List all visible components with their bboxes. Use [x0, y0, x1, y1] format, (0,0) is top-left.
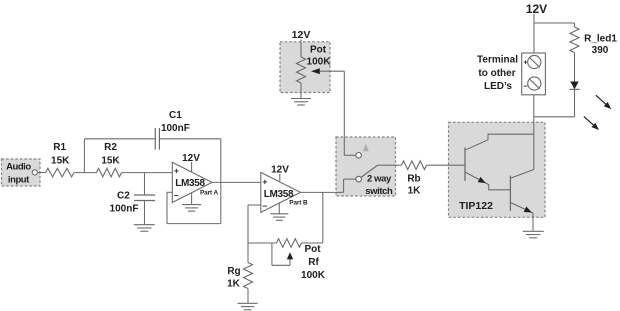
- svg-text:+: +: [523, 57, 528, 66]
- svg-text:+: +: [262, 176, 267, 186]
- svg-text:−: −: [262, 201, 267, 211]
- svg-text:R1: R1: [53, 142, 66, 153]
- svg-text:TIP122: TIP122: [459, 200, 493, 212]
- svg-text:R2: R2: [104, 142, 117, 153]
- svg-text:1K: 1K: [408, 186, 422, 197]
- svg-text:Pot: Pot: [310, 44, 327, 55]
- svg-text:15K: 15K: [101, 155, 120, 166]
- svg-text:12V: 12V: [526, 2, 547, 16]
- svg-text:Audio: Audio: [6, 161, 31, 172]
- svg-text:+: +: [174, 165, 179, 175]
- svg-text:100K: 100K: [301, 270, 326, 281]
- svg-text:Part B: Part B: [289, 200, 308, 207]
- svg-text:C1: C1: [169, 110, 182, 121]
- svg-text:C2: C2: [117, 190, 130, 201]
- svg-text:Part A: Part A: [200, 189, 218, 196]
- svg-text:input: input: [8, 175, 30, 186]
- svg-text:LM358: LM358: [264, 189, 294, 200]
- svg-text:2 way: 2 way: [367, 173, 392, 184]
- svg-text:switch: switch: [365, 186, 393, 197]
- svg-text:R_led1: R_led1: [584, 34, 617, 45]
- svg-text:Rg: Rg: [227, 266, 240, 277]
- svg-text:Rf: Rf: [308, 257, 319, 268]
- svg-text:−: −: [174, 190, 179, 200]
- svg-text:390: 390: [592, 45, 609, 56]
- svg-text:LED’s: LED’s: [484, 81, 512, 92]
- svg-text:12V: 12V: [292, 29, 311, 41]
- svg-text:−: −: [523, 82, 528, 91]
- svg-text:to other: to other: [478, 68, 515, 79]
- svg-text:1K: 1K: [227, 278, 241, 289]
- svg-text:100nF: 100nF: [110, 204, 139, 215]
- svg-text:Rb: Rb: [407, 174, 420, 185]
- svg-text:Terminal: Terminal: [477, 54, 518, 65]
- svg-text:100nF: 100nF: [161, 123, 190, 134]
- svg-text:Pot: Pot: [304, 244, 321, 255]
- svg-text:LM358: LM358: [175, 178, 205, 189]
- svg-text:100K: 100K: [307, 56, 332, 67]
- svg-text:12V: 12V: [271, 165, 289, 176]
- svg-text:15K: 15K: [51, 155, 70, 166]
